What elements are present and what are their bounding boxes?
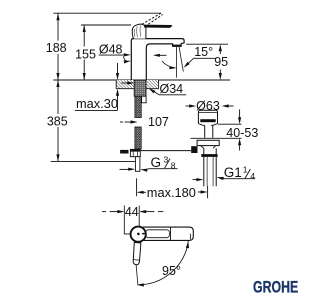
circle center dot — [137, 233, 140, 236]
ref line hose end (385 bottom) — [51, 160, 136, 162]
dim 155 vertical line — [83, 25, 85, 47]
max180 left ext line — [136, 178, 138, 196]
G3/8 leader arrows — [144, 169, 149, 170]
svg-text:4: 4 — [250, 171, 255, 181]
cup taper — [198, 124, 217, 126]
svg-text:385: 385 — [47, 114, 68, 128]
max180 arrows — [137, 191, 144, 194]
deck hatch left — [116, 80, 134, 89]
max180 right ext line — [207, 186, 209, 198]
ref line lever height 155 — [81, 24, 131, 26]
stream vertical line — [176, 47, 178, 78]
svg-text:max.30: max.30 — [76, 96, 118, 111]
dim 385 vertical line — [57, 80, 59, 114]
faucet body outline — [131, 39, 184, 80]
shank through deck — [134, 80, 146, 96]
dim 44 — [102, 211, 106, 213]
ref line top (raised lever height) — [53, 12, 160, 14]
deck outline — [116, 88, 134, 90]
label max.30 underline+riser — [75, 109, 118, 111]
lever knob (cartridge cover) — [132, 24, 146, 38]
svg-text:40-53: 40-53 — [226, 126, 258, 140]
stream slanted 15deg — [179, 46, 183, 71]
hose braided upper — [135, 96, 141, 117]
angle arc left segment — [162, 61, 176, 68]
dim 95 top ref line — [186, 43, 228, 45]
svg-text:max.180: max.180 — [147, 185, 196, 200]
svg-text:155: 155 — [75, 47, 96, 61]
label O48 underline + leader — [99, 54, 123, 56]
spout step line — [170, 227, 172, 240]
svg-text:1: 1 — [243, 164, 248, 174]
G1 1/4 leaders — [220, 178, 223, 179]
angle arc right segment (leader from 15deg label) — [186, 58, 194, 66]
top view lever — [133, 242, 141, 264]
hose nut — [130, 149, 140, 156]
40-53 arrows — [239, 110, 241, 120]
svg-text:G1: G1 — [224, 165, 242, 180]
svg-text:Ø48: Ø48 — [99, 43, 123, 57]
svg-text:15°: 15° — [194, 45, 213, 59]
waste neck — [204, 125, 206, 138]
top view body circle — [131, 227, 146, 242]
label 15deg underline — [193, 57, 216, 59]
svg-text:188: 188 — [46, 41, 67, 55]
ref line deck top / mounting surface — [53, 79, 230, 81]
G3/8 threaded tube — [135, 157, 140, 172]
lever axis extension — [136, 265, 138, 284]
label G1 1/4 underline — [222, 178, 255, 180]
max.30 upper arrow — [117, 63, 119, 75]
knob shading — [134, 25, 140, 37]
locking nut — [197, 140, 219, 145]
top view spout — [143, 227, 193, 240]
deck hatch right — [146, 80, 158, 89]
tailpipe — [203, 148, 205, 186]
O34 left arrow — [122, 82, 130, 84]
O48 small second leader — [123, 56, 127, 61]
label 107 leader — [120, 121, 123, 123]
95deg arc — [137, 241, 188, 285]
svg-text:Ø34: Ø34 — [160, 82, 184, 96]
lever dashed (raised position) — [142, 13, 162, 25]
44 left L ext line — [124, 206, 130, 234]
pop-up rod horizontal — [141, 150, 191, 152]
waste top cup — [198, 110, 217, 123]
aerator dark — [173, 45, 182, 47]
svg-text:95: 95 — [214, 55, 228, 69]
O63 arrows — [186, 105, 191, 107]
waste plug dark band — [200, 119, 215, 122]
label G3/8 underline — [149, 168, 177, 170]
tailpipe thread lines — [206, 157, 208, 186]
dim 188 vertical line — [57, 13, 59, 40]
tailpipe coupling dark band — [201, 154, 217, 157]
svg-text:107: 107 — [148, 115, 169, 129]
label O34 underline + slant leader — [159, 94, 186, 96]
44 right ext line — [138, 206, 140, 227]
basin bottom ref line — [191, 137, 242, 139]
max180 right arrow — [198, 191, 203, 193]
spout inner contour — [146, 230, 170, 238]
svg-text:G: G — [151, 155, 162, 170]
pop-up rod housing — [142, 96, 147, 103]
svg-text:GROHE: GROHE — [253, 277, 298, 296]
circle inner tick — [142, 233, 145, 235]
second hose end dark — [120, 150, 128, 154]
lever solid (down position) — [144, 25, 172, 28]
svg-text:95°: 95° — [162, 264, 181, 278]
hose braided lower — [135, 127, 141, 149]
spout ext tick — [189, 234, 191, 240]
nut taper — [201, 146, 216, 149]
dim 95 arrows — [219, 51, 221, 55]
svg-text:Ø63: Ø63 — [196, 99, 220, 113]
40-53 top ref — [218, 123, 242, 125]
svg-text:44: 44 — [125, 205, 139, 219]
rod clamp knob — [191, 146, 197, 153]
spout inner arrow — [157, 54, 167, 56]
